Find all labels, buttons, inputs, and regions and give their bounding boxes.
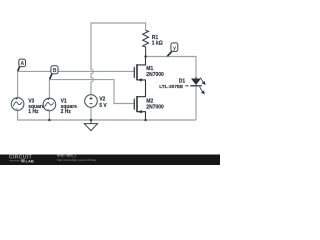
- voltage source V3 square 1 Hz: [11, 98, 45, 115]
- transistor M2 2N7000: [134, 96, 145, 120]
- svg-text:B: B: [53, 68, 57, 74]
- svg-text:1 Hz: 1 Hz: [28, 109, 39, 115]
- svg-text:5 V: 5 V: [99, 103, 107, 109]
- wire bottom ground rail: [18, 110, 196, 120]
- footer CircuitLab logo: [9, 155, 34, 164]
- wire output node y: [146, 57, 196, 79]
- node junction dot R1/M1/y: [144, 55, 147, 58]
- node flag B: [50, 66, 58, 80]
- wire B horizontal: [49, 80, 134, 104]
- voltage source V1 square 2 Hz: [43, 98, 77, 115]
- wire V3 stem: [17, 71, 19, 97]
- transistor M1 2N7000: [134, 57, 145, 97]
- footer watermark bar: [0, 155, 220, 166]
- resistor R1: [143, 30, 149, 56]
- node junction dot V2 on rail: [90, 119, 93, 122]
- voltage source V2 5 V battery: [85, 95, 108, 109]
- svg-text:http://circuitlab.com/cvx53aq: http://circuitlab.com/cvx53aq: [57, 158, 96, 162]
- wire V1 stem: [48, 80, 50, 99]
- ground: [84, 120, 97, 131]
- svg-text:1 kΩ: 1 kΩ: [152, 40, 163, 46]
- svg-text:LAB: LAB: [26, 158, 34, 163]
- wire LED cathode to rail: [195, 86, 197, 120]
- node flag y: [167, 43, 177, 56]
- svg-text:2N7000: 2N7000: [146, 105, 164, 111]
- wire V1 bottom stem: [48, 111, 50, 120]
- node flag A: [18, 59, 26, 71]
- wire V2 bottom stem: [90, 107, 92, 120]
- svg-text:y: y: [173, 46, 176, 52]
- svg-text:A: A: [20, 61, 24, 67]
- svg-text:2 Hz: 2 Hz: [61, 109, 72, 115]
- node junction dot M2 source on rail: [144, 119, 147, 122]
- wire A horizontal: [18, 70, 135, 72]
- node junction dot V1 on rail: [48, 119, 51, 122]
- svg-text:V2: V2: [99, 97, 105, 103]
- svg-text:LTL-307EE: LTL-307EE: [159, 84, 183, 89]
- LED D1 LTL-307EE: [159, 77, 205, 94]
- wire top rail from V2 column to R1 top: [91, 23, 146, 95]
- svg-text:2N7000: 2N7000: [146, 72, 164, 78]
